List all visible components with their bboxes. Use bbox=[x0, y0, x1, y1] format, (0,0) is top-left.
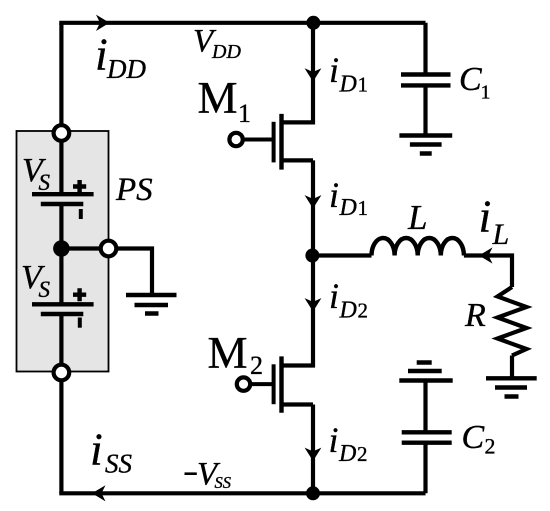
transistor M2: channel bar bbox=[279, 356, 283, 412]
svg-text:1: 1 bbox=[481, 82, 491, 104]
ground symbol (C2, flipped) bbox=[399, 363, 452, 381]
capacitor C1 top lead bbox=[423, 23, 427, 75]
capacitor C1 bottom lead bbox=[423, 85, 427, 135]
svg-text:PS: PS bbox=[115, 172, 153, 208]
ground symbol (PS reference) bbox=[126, 295, 177, 314]
svg-text:i: i bbox=[329, 420, 339, 460]
junction node: bottom rail / M2 source bbox=[306, 486, 320, 500]
svg-text:D: D bbox=[339, 297, 357, 323]
wire: PS internal bottom bbox=[59, 314, 63, 364]
svg-text:2: 2 bbox=[250, 351, 263, 380]
wire: top rail VDD bbox=[59, 21, 425, 25]
capacitor C1 plates bbox=[401, 75, 451, 86]
svg-text:C: C bbox=[462, 419, 485, 456]
capacitor C2 plates bbox=[402, 432, 452, 442]
wire: PS internal middle bbox=[59, 204, 63, 304]
svg-text:L: L bbox=[492, 218, 510, 251]
battery VS2 bottom plate bbox=[41, 312, 84, 316]
svg-text:1: 1 bbox=[238, 99, 251, 128]
resistor R bbox=[498, 287, 527, 356]
svg-text:2: 2 bbox=[485, 434, 496, 459]
svg-text:DD: DD bbox=[211, 41, 241, 63]
minus sign of -V_SS bbox=[185, 472, 197, 475]
wire: resistor to ground bbox=[510, 356, 514, 377]
svg-text:i: i bbox=[329, 175, 339, 215]
arrow i_D1 (top) bbox=[305, 68, 322, 81]
svg-text:i: i bbox=[90, 424, 103, 475]
wire: node to M2 drain bbox=[282, 256, 314, 366]
battery VS2 minus mark bbox=[78, 318, 82, 328]
svg-text:i: i bbox=[329, 276, 339, 316]
transistor M2: gate terminal circle bbox=[237, 377, 250, 390]
wire: left rail bottom (i_SS branch) bbox=[59, 381, 63, 493]
svg-text:1: 1 bbox=[358, 72, 369, 96]
capacitor C2 top lead bbox=[423, 381, 427, 433]
transistor M2: source lead bbox=[282, 402, 314, 406]
svg-text:1: 1 bbox=[358, 196, 369, 220]
wire: M2 source to bottom rail bbox=[311, 405, 315, 494]
battery VS2 plus sign bbox=[73, 288, 86, 301]
svg-text:D: D bbox=[339, 71, 357, 97]
svg-text:SS: SS bbox=[215, 473, 232, 492]
transistor M1: gate bar bbox=[272, 122, 276, 163]
junction dot: PS midpoint bbox=[53, 240, 70, 257]
svg-text:2: 2 bbox=[358, 298, 369, 322]
arrow i_D2 (below M2) bbox=[305, 448, 322, 461]
battery VS1 plus sign bbox=[73, 180, 86, 193]
capacitor C2 bottom lead bbox=[423, 443, 427, 494]
svg-text:S: S bbox=[39, 170, 51, 195]
svg-text:D: D bbox=[339, 195, 357, 221]
junction node: top rail / M1 drain bbox=[306, 16, 320, 30]
ground symbol (load R) bbox=[486, 378, 537, 396]
svg-text:S: S bbox=[39, 277, 51, 302]
svg-text:D: D bbox=[338, 441, 356, 467]
arrow i_D1 (below M1) bbox=[305, 195, 322, 208]
svg-text:L: L bbox=[407, 198, 427, 237]
arrow i_L bbox=[479, 247, 493, 263]
terminal: PS top open circle bbox=[54, 125, 70, 141]
battery VS1 minus mark bbox=[79, 209, 83, 219]
wire: node to inductor bbox=[313, 253, 372, 257]
svg-text:i: i bbox=[479, 191, 492, 242]
battery VS1 top plate bbox=[32, 192, 94, 196]
transistor M2: gate bar bbox=[272, 364, 276, 404]
arrow i_D2 (above M2) bbox=[305, 298, 322, 311]
transistor M1: gate terminal circle bbox=[229, 133, 242, 146]
ground symbol (C1) bbox=[399, 136, 452, 154]
svg-text:i: i bbox=[95, 29, 108, 80]
transistor M1: channel bar bbox=[279, 114, 283, 170]
wire: M1 source to mid node bbox=[311, 160, 315, 255]
svg-text:R: R bbox=[464, 297, 486, 334]
svg-text:C: C bbox=[459, 61, 482, 98]
wire: PS internal top bbox=[59, 142, 63, 195]
terminal: PS bottom open circle bbox=[54, 365, 70, 381]
transistor M1: source lead bbox=[282, 158, 314, 162]
transistor M2: gate lead bbox=[251, 382, 274, 386]
arrow i_DD on top rail bbox=[96, 15, 110, 31]
arrow i_SS on bottom rail bbox=[92, 485, 106, 501]
svg-text:M: M bbox=[208, 328, 248, 378]
wire: bottom rail -VSS bbox=[59, 491, 425, 495]
svg-text:2: 2 bbox=[357, 442, 368, 466]
wire: left rail top (i_DD branch) bbox=[59, 23, 63, 124]
svg-text:M: M bbox=[198, 73, 238, 123]
power supply box PS bbox=[17, 131, 109, 372]
wire: M1 drain branch bbox=[282, 21, 314, 123]
svg-text:DD: DD bbox=[106, 54, 146, 84]
battery VS1 bottom plate bbox=[41, 202, 84, 206]
transistor M1: gate lead bbox=[243, 138, 274, 142]
inductor L bbox=[372, 238, 464, 256]
terminal: PS middle-right open circle bbox=[101, 241, 117, 257]
wire: inductor to resistor corner bbox=[464, 256, 512, 288]
wire: PS midpoint to right terminal bbox=[61, 246, 100, 250]
svg-text:SS: SS bbox=[105, 449, 133, 479]
svg-text:i: i bbox=[329, 50, 339, 90]
wire: PS right terminal to ground bbox=[117, 249, 152, 294]
junction node: output node bbox=[305, 249, 319, 263]
battery VS2 top plate bbox=[32, 302, 94, 306]
